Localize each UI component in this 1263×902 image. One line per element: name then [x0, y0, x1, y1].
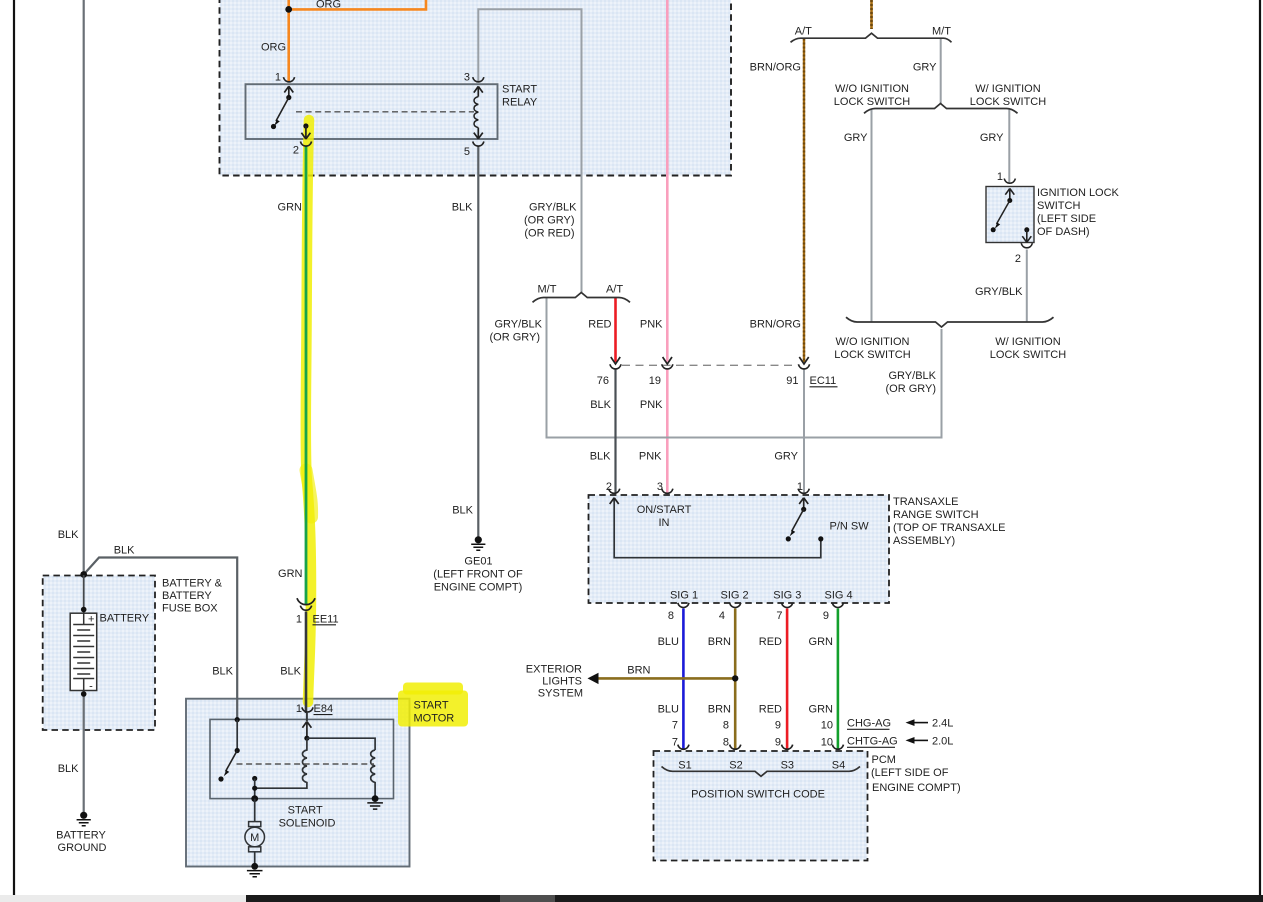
- relay K1 mechanical link dashed: [296, 111, 474, 113]
- underline E84: [314, 714, 333, 716]
- start motor switch feed wire inside: [236, 720, 238, 751]
- scrollbar gray segment: [500, 895, 555, 902]
- wire BRN/ORG from top to A/T M/T brace: [870, 0, 873, 29]
- wire GRY from joining brace down, left, and up to M/T brace: [547, 298, 942, 438]
- svg-text:(LEFT FRONT OF: (LEFT FRONT OF: [433, 568, 523, 580]
- svg-text:(TOP OF TRANSAXLE: (TOP OF TRANSAXLE: [893, 522, 1005, 534]
- start motor switch open contact node: [218, 776, 223, 781]
- ignition lock switch arrow up at pin 1: [1005, 189, 1014, 201]
- CHG-AG arrow 2.4L: [906, 719, 915, 726]
- start motor switch pivot node: [235, 748, 240, 753]
- svg-text:9: 9: [775, 736, 781, 748]
- svg-text:M/T: M/T: [932, 25, 951, 37]
- wire BLK below EC11 pin 76 to transaxle pin 2: [614, 370, 616, 494]
- start solenoid hold-in coil winding: [371, 750, 375, 799]
- svg-text:BLK: BLK: [452, 504, 473, 516]
- svg-text:P/N SW: P/N SW: [830, 521, 870, 533]
- highlighter blob over START MOTOR label: [398, 691, 468, 727]
- svg-text:EC11: EC11: [810, 375, 837, 387]
- P/N switch open contact node: [786, 536, 791, 541]
- start solenoid mechanical link dashed: [237, 763, 375, 765]
- svg-text:IN: IN: [659, 517, 670, 529]
- svg-text:1: 1: [797, 481, 803, 493]
- underline EE11: [313, 624, 337, 626]
- svg-text:EE11: EE11: [313, 613, 339, 625]
- wire GRN from relay pin 2 down to connector EE11: [305, 146, 308, 604]
- connector EC11 pin 19 arrow and arc: [663, 357, 672, 364]
- svg-text:ASSEMBLY): ASSEMBLY): [893, 535, 955, 547]
- svg-text:ON/START: ON/START: [637, 504, 692, 516]
- svg-text:BRN: BRN: [708, 703, 731, 715]
- svg-text:BLK: BLK: [114, 544, 135, 556]
- svg-text:CHTG-AG: CHTG-AG: [847, 736, 898, 748]
- junction node on solenoid box bottom: [251, 795, 258, 802]
- relay K1 switch blade: [276, 98, 289, 122]
- svg-text:POSITION SWITCH CODE: POSITION SWITCH CODE: [691, 788, 825, 800]
- svg-text:S3: S3: [781, 759, 794, 771]
- wire ORG down to relay pin 1: [287, 9, 290, 81]
- svg-text:BLK: BLK: [590, 451, 611, 463]
- start motor feed stub through box top: [306, 713, 308, 721]
- svg-text:M: M: [250, 832, 259, 844]
- start solenoid top wire to hold-in coil: [307, 738, 375, 750]
- brace split w/o vs w/ ignition lock switch: [864, 104, 1018, 114]
- diagram right border line: [1259, 0, 1261, 895]
- wire GRY from relay pin 3 up and over: [478, 9, 581, 292]
- svg-text:LOCK SWITCH: LOCK SWITCH: [834, 349, 910, 361]
- svg-text:GRY/BLK: GRY/BLK: [889, 370, 937, 382]
- svg-text:BRN/ORG: BRN/ORG: [750, 318, 801, 330]
- svg-text:9: 9: [823, 610, 829, 622]
- svg-text:8: 8: [723, 720, 729, 732]
- svg-text:GE01: GE01: [464, 555, 492, 567]
- wire PNK below EC11 to transaxle pin 3: [666, 370, 669, 494]
- relay K1 switch pivot node: [286, 95, 291, 100]
- svg-text:MOTOR: MOTOR: [414, 713, 455, 725]
- transaxle range switch pin 2 arc: [609, 489, 620, 494]
- transaxle range switch pin 1 arc: [798, 489, 809, 494]
- svg-text:LOCK SWITCH: LOCK SWITCH: [834, 96, 910, 108]
- svg-text:4: 4: [719, 610, 725, 622]
- svg-text:GRY: GRY: [774, 451, 798, 463]
- connector EC11 pin 76 arrow and arc: [611, 357, 620, 364]
- svg-text:(OR RED): (OR RED): [524, 227, 574, 239]
- junction node of coil return on output wire: [252, 786, 257, 791]
- start solenoid junction node: [304, 736, 309, 741]
- svg-text:ENGINE COMPT): ENGINE COMPT): [434, 581, 523, 593]
- svg-text:SOLENOID: SOLENOID: [279, 817, 336, 829]
- svg-text:BATTERY: BATTERY: [56, 830, 106, 842]
- svg-text:1: 1: [997, 171, 1003, 183]
- svg-text:76: 76: [597, 375, 609, 387]
- svg-text:5: 5: [464, 146, 470, 158]
- svg-text:91: 91: [786, 375, 798, 387]
- wire RED branch A/T to connector EC11 pin 76: [614, 298, 617, 362]
- CHTG-AG arrow 2.0L: [906, 737, 915, 744]
- PCM brace position switch code (inverted): [662, 767, 861, 777]
- svg-text:-: -: [89, 681, 93, 693]
- transaxle internal wire pin2 to P/N switch contact: [614, 500, 821, 558]
- PCM pin S1 arc: [678, 745, 689, 750]
- svg-text:SWITCH: SWITCH: [1037, 200, 1080, 212]
- svg-text:BLU: BLU: [658, 703, 679, 715]
- wire GRY below EC11 pin 91 to transaxle pin 1: [803, 370, 805, 494]
- svg-text:8: 8: [723, 736, 729, 748]
- svg-text:GRY/BLK: GRY/BLK: [529, 201, 577, 213]
- brace split A/T M/T at top: [791, 33, 952, 42]
- P/N switch pivot node: [801, 507, 806, 512]
- wire GRY/BLK from ignition lock switch pin 2 to joining brace: [1026, 250, 1028, 322]
- dashed box: under-hood fuse/relay area (top): [220, 0, 732, 176]
- svg-text:LIGHTS: LIGHTS: [542, 675, 582, 687]
- ignition lock switch blade: [997, 201, 1010, 225]
- underline EC11: [810, 386, 838, 388]
- svg-text:EXTERIOR: EXTERIOR: [526, 663, 582, 675]
- svg-text:W/O IGNITION: W/O IGNITION: [836, 336, 910, 348]
- exterior lights system arrow: [588, 673, 599, 684]
- wire GRY branch M/T down to ignition brace: [940, 39, 942, 104]
- svg-text:GRY: GRY: [913, 62, 937, 74]
- svg-text:ORG: ORG: [261, 42, 286, 54]
- start motor switch feed contact node: [235, 717, 240, 722]
- connector EC11 dashed line: [622, 364, 797, 366]
- start solenoid pull-in coil winding: [255, 738, 307, 788]
- svg-text:OF DASH): OF DASH): [1037, 226, 1090, 238]
- motor M1 lead from solenoid: [254, 799, 256, 822]
- svg-text:BRN/ORG: BRN/ORG: [750, 62, 801, 74]
- svg-text:RED: RED: [759, 636, 782, 648]
- relay K1 output contact node: [303, 123, 308, 128]
- start motor pin E84 terminal arc: [302, 707, 313, 712]
- svg-text:START: START: [502, 84, 537, 96]
- box: PCM (dashed): [654, 751, 868, 861]
- svg-text:19: 19: [649, 375, 661, 387]
- ignition lock switch open contact node: [991, 227, 996, 232]
- svg-text:SIG 2: SIG 2: [721, 589, 749, 601]
- junction node at battery box top: [80, 571, 87, 578]
- svg-text:SIG 1: SIG 1: [670, 589, 698, 601]
- svg-text:2.4L: 2.4L: [932, 718, 953, 730]
- svg-text:RELAY: RELAY: [502, 97, 538, 109]
- wire RED from transaxle SIG3 to PCM pin S3: [786, 609, 789, 750]
- svg-text:S2: S2: [729, 759, 742, 771]
- svg-text:ENGINE COMPT): ENGINE COMPT): [872, 782, 961, 794]
- svg-text:BRN: BRN: [627, 665, 650, 677]
- svg-text:BLK: BLK: [58, 529, 79, 541]
- svg-text:SIG 4: SIG 4: [825, 589, 853, 601]
- transaxle switch arrow up inside at pin 1: [799, 498, 808, 510]
- battery terminal nodes: [81, 607, 87, 613]
- svg-text:BLK: BLK: [590, 399, 611, 411]
- svg-text:BLU: BLU: [658, 636, 679, 648]
- svg-text:START: START: [414, 700, 449, 712]
- svg-text:10: 10: [821, 736, 833, 748]
- ignition lock switch pivot node: [1007, 198, 1012, 203]
- svg-text:START: START: [288, 804, 323, 816]
- transaxle SIG2 bottom arc: [730, 603, 741, 608]
- svg-text:S4: S4: [832, 759, 845, 771]
- battery cell plates: [73, 625, 94, 679]
- wire BLK battery feed to start motor switch: [84, 558, 238, 720]
- wire BLK from top down to battery junction: [83, 0, 85, 574]
- svg-text:BATTERY: BATTERY: [162, 590, 212, 602]
- svg-text:PNK: PNK: [640, 318, 663, 330]
- svg-text:E84: E84: [314, 703, 334, 715]
- svg-text:GROUND: GROUND: [58, 842, 107, 854]
- svg-text:W/ IGNITION: W/ IGNITION: [975, 83, 1040, 95]
- highlighter mark over GRN wire: [306, 120, 311, 702]
- box: battery &amp; battery fuse box (dashed): [43, 576, 155, 731]
- scrollbar track bottom left: [0, 895, 1263, 902]
- svg-text:TRANSAXLE: TRANSAXLE: [893, 496, 958, 508]
- relay K1 pin 1 terminal arc: [283, 77, 294, 82]
- switch box: ignition lock switch outline: [986, 187, 1034, 243]
- svg-text:GRN: GRN: [809, 703, 834, 715]
- transaxle SIG1 bottom arc: [678, 603, 689, 608]
- svg-text:1: 1: [296, 613, 302, 625]
- connector EE11 inline arcs: [297, 598, 315, 604]
- svg-text:BLK: BLK: [452, 201, 473, 213]
- svg-text:2: 2: [293, 144, 299, 156]
- ignition lock switch pin 1 terminal arc: [1004, 179, 1015, 184]
- svg-text:GRN: GRN: [809, 636, 834, 648]
- svg-text:GRY: GRY: [980, 132, 1004, 144]
- svg-text:M/T: M/T: [538, 283, 557, 295]
- svg-text:A/T: A/T: [795, 25, 812, 37]
- wire BRN from transaxle SIG2 to PCM pin S2: [734, 609, 737, 750]
- svg-text:7: 7: [672, 736, 678, 748]
- relay K1 box: start relay outline: [246, 84, 498, 139]
- wire GRY w/o ignition lock switch branch: [871, 109, 873, 322]
- svg-text:S1: S1: [678, 759, 691, 771]
- svg-text:7: 7: [672, 720, 678, 732]
- svg-text:GRY/BLK: GRY/BLK: [495, 318, 543, 330]
- svg-text:BATTERY &: BATTERY &: [162, 577, 223, 589]
- svg-text:BLK: BLK: [212, 665, 233, 677]
- underline CHTG-AG: [847, 746, 895, 748]
- brace join w/o vs w/ ignition lock switch (inverted): [846, 317, 1054, 327]
- relay K1 pin 5 terminal arc: [473, 142, 484, 147]
- motor M1 armature circle: [245, 827, 265, 847]
- wire BLK from connector EE11 down to start motor pin E84: [305, 612, 308, 714]
- wire BRN horizontal to exterior lights system: [597, 677, 735, 680]
- svg-text:LOCK SWITCH: LOCK SWITCH: [990, 349, 1066, 361]
- svg-text:A/T: A/T: [606, 283, 623, 295]
- svg-text:PNK: PNK: [640, 399, 663, 411]
- battery internal terminal stubs: [83, 613, 85, 690]
- svg-text:SYSTEM: SYSTEM: [538, 687, 583, 699]
- svg-text:RED: RED: [588, 318, 611, 330]
- svg-text:IGNITION LOCK: IGNITION LOCK: [1037, 187, 1120, 199]
- svg-text:2.0L: 2.0L: [932, 736, 953, 748]
- ignition lock switch arrow down to pin 2: [1022, 230, 1031, 243]
- start motor switch output contact node: [252, 776, 257, 781]
- transaxle SIG4 bottom arc: [832, 603, 843, 608]
- highlighter wide flare segment: [306, 470, 312, 517]
- PCM pin S4 arc: [832, 745, 843, 750]
- svg-text:GRN: GRN: [278, 568, 303, 580]
- wire ORG horizontal to fuse (up at right): [289, 0, 426, 9]
- svg-text:(OR GRY): (OR GRY): [489, 331, 540, 343]
- svg-text:7: 7: [776, 610, 782, 622]
- start solenoid coil ground node and symbol: [372, 795, 379, 802]
- box: start solenoid inner outline: [210, 719, 394, 798]
- svg-text:GRN: GRN: [278, 201, 303, 213]
- wire PNK from top to connector EC11: [666, 0, 669, 362]
- svg-text:(OR GRY): (OR GRY): [524, 214, 575, 226]
- connector EC11 pin 91 arrow and arc: [799, 357, 808, 364]
- start motor switch blade: [226, 751, 238, 772]
- motor M1 lead to ground: [254, 852, 256, 867]
- svg-text:BLK: BLK: [58, 763, 79, 775]
- svg-text:2: 2: [606, 481, 612, 493]
- wire battery negative lead down to battery ground: [83, 691, 85, 817]
- PCM pin S2 arc: [730, 745, 741, 750]
- motor M1 brush top: [249, 822, 261, 827]
- start motor output wire to motor: [254, 779, 256, 799]
- svg-text:FUSE BOX: FUSE BOX: [162, 602, 218, 614]
- PCM pin S3 arc: [782, 745, 793, 750]
- svg-text:+: +: [88, 613, 94, 625]
- ignition lock switch output contact node: [1024, 227, 1029, 232]
- svg-text:PCM: PCM: [872, 754, 896, 766]
- svg-text:RANGE SWITCH: RANGE SWITCH: [893, 509, 979, 521]
- transaxle switch arrow up inside at pin 2: [610, 498, 619, 504]
- svg-text:GRY/BLK: GRY/BLK: [975, 286, 1023, 298]
- wire battery positive lead: [83, 575, 85, 613]
- svg-text:ORG: ORG: [316, 0, 341, 11]
- svg-text:BLK: BLK: [280, 665, 301, 677]
- relay K1 switch arm arrow up at pin 1: [284, 86, 293, 97]
- svg-text:8: 8: [668, 610, 674, 622]
- relay K1 coil arrow top: [474, 86, 483, 96]
- battery ground symbol: [80, 812, 87, 819]
- svg-text:1: 1: [275, 72, 281, 84]
- wire BLU from transaxle SIG1 to PCM pin S1: [682, 609, 685, 750]
- svg-text:3: 3: [657, 481, 663, 493]
- box: transaxle range switch (dashed): [589, 495, 890, 603]
- wire GRN from transaxle SIG4 to PCM pin S4: [837, 609, 840, 750]
- start solenoid arrow up at E84: [302, 722, 311, 739]
- box: start motor outline: [186, 699, 410, 867]
- svg-text:GRY: GRY: [844, 132, 868, 144]
- relay K1 pin 2 terminal arc: [300, 142, 311, 147]
- diagram left border line: [13, 0, 15, 895]
- scrollbar dark bar bottom: [246, 895, 1263, 902]
- relay K1 coil arrow bottom: [474, 128, 483, 139]
- junction node on ORG wire: [285, 6, 292, 13]
- junction node BRN tap: [732, 675, 738, 681]
- svg-text:W/ IGNITION: W/ IGNITION: [995, 336, 1060, 348]
- svg-text:(LEFT SIDE: (LEFT SIDE: [1037, 213, 1096, 225]
- motor M1 brush bottom: [249, 847, 261, 852]
- wire GRY w/ ignition lock switch branch to switch pin 1: [1008, 109, 1010, 184]
- P/N switch blade: [792, 509, 804, 531]
- motor ground node and symbol: [251, 863, 258, 870]
- ignition lock switch pin 2 terminal arc: [1021, 243, 1032, 248]
- ground GE01 symbol: [475, 536, 482, 543]
- relay K1 switch open contact node: [271, 124, 276, 129]
- svg-text:(LEFT SIDE OF: (LEFT SIDE OF: [871, 767, 949, 779]
- transaxle SIG3 bottom arc: [782, 603, 793, 608]
- svg-text:W/O IGNITION: W/O IGNITION: [835, 83, 909, 95]
- svg-text:PNK: PNK: [639, 451, 662, 463]
- svg-text:BATTERY: BATTERY: [100, 613, 150, 625]
- wire ORG vertical stub above junction: [287, 0, 290, 10]
- relay K1 coil winding: [474, 97, 478, 128]
- svg-text:3: 3: [464, 72, 470, 84]
- brace split M/T A/T mid: [533, 293, 631, 303]
- transaxle range switch pin 3 arc: [662, 489, 673, 494]
- svg-text:10: 10: [821, 720, 833, 732]
- underline CHG-AG: [847, 728, 890, 730]
- battery symbol outline: [70, 613, 97, 690]
- svg-text:(OR GRY): (OR GRY): [885, 383, 936, 395]
- svg-text:1: 1: [296, 703, 302, 715]
- svg-text:SIG 3: SIG 3: [773, 589, 801, 601]
- svg-text:RED: RED: [759, 703, 782, 715]
- relay K1 output arrow down to pin 2: [301, 126, 310, 139]
- relay K1 pin 3 terminal arc: [473, 77, 484, 82]
- P/N switch output contact node: [818, 536, 823, 541]
- svg-text:2: 2: [1015, 253, 1021, 265]
- wire BRN/ORG branch A/T down to connector EC11 pin 91: [803, 39, 805, 363]
- svg-text:9: 9: [775, 720, 781, 732]
- svg-text:BRN: BRN: [708, 636, 731, 648]
- svg-text:LOCK SWITCH: LOCK SWITCH: [970, 96, 1046, 108]
- svg-text:CHG-AG: CHG-AG: [847, 718, 891, 730]
- wire BLK from relay pin 5 down to ground GE01: [477, 146, 479, 537]
- highlighter blob tail: [403, 683, 463, 695]
